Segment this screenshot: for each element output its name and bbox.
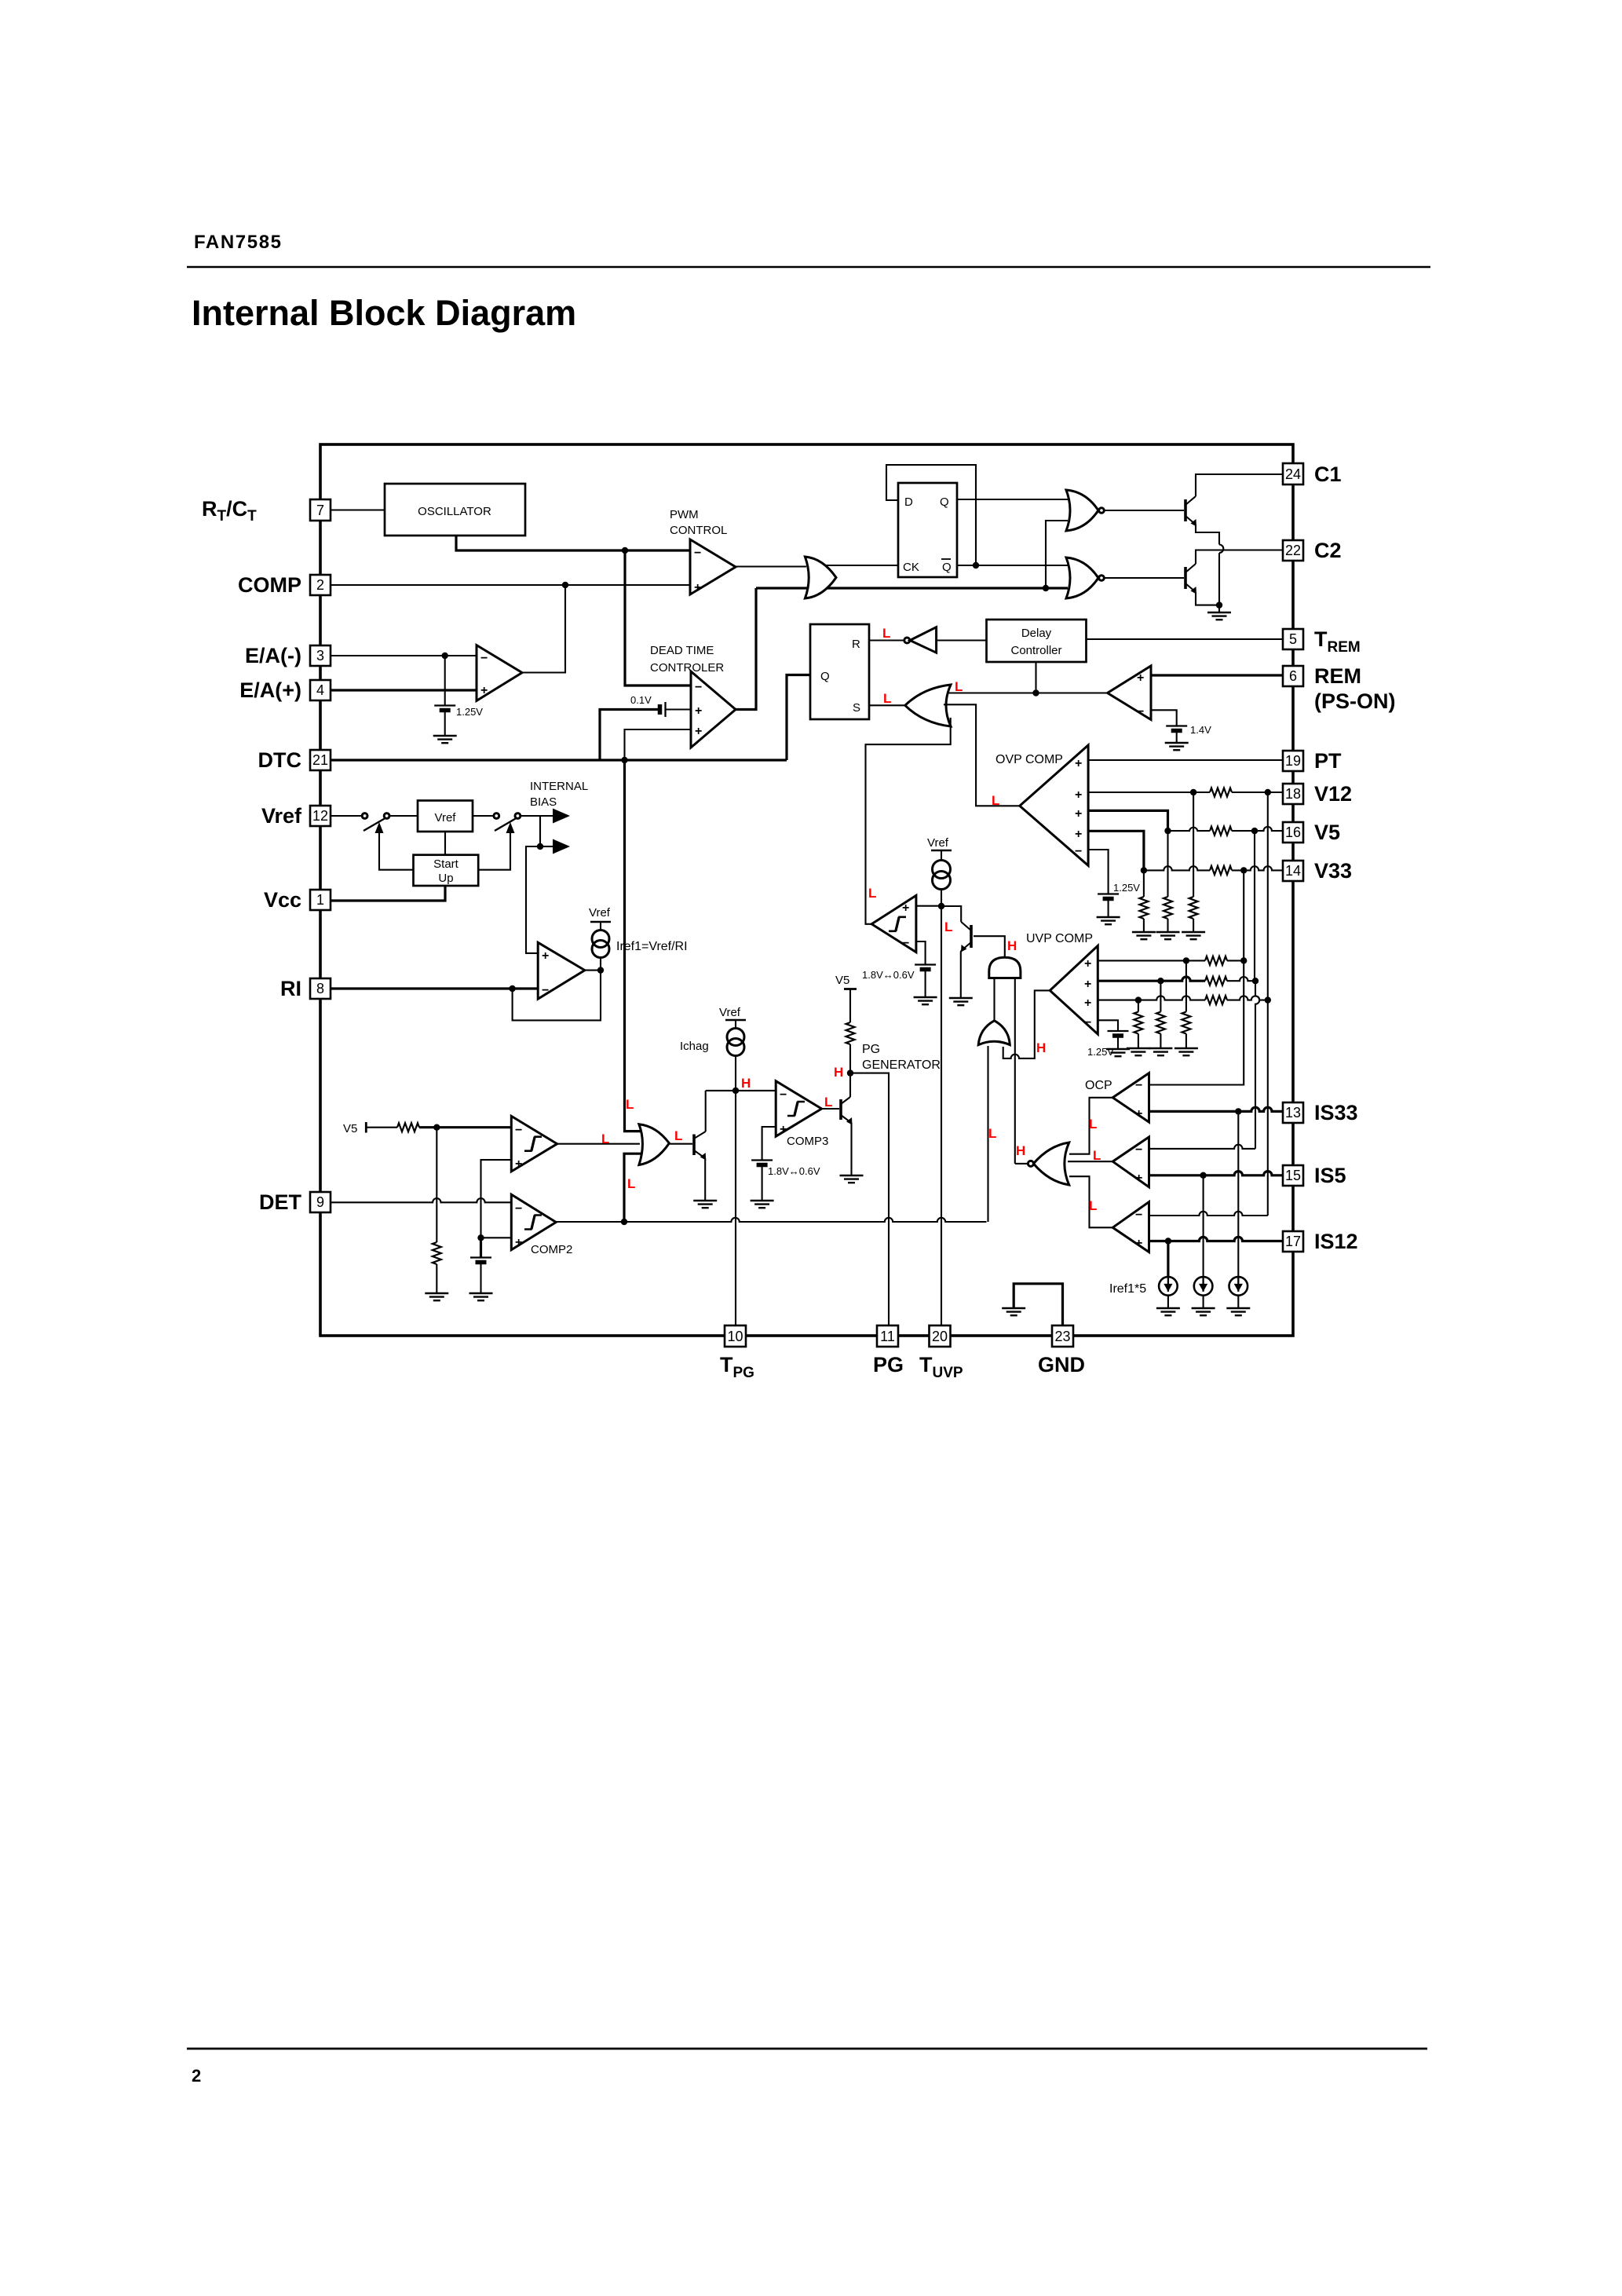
nor-gate NOR1 (C1 driver) bbox=[1066, 490, 1098, 531]
svg-text:+: + bbox=[1135, 1107, 1142, 1121]
box Start Up bbox=[414, 855, 479, 886]
node IS5 sense bbox=[1200, 1172, 1206, 1179]
pin 16 bbox=[1283, 822, 1303, 843]
node IS33 sense bbox=[1235, 1108, 1241, 1114]
svg-text:Q: Q bbox=[940, 495, 949, 509]
wire V5 bus down to OCP2 minus bbox=[1254, 831, 1255, 981]
op-amp OVP comparator (points left) bbox=[1020, 745, 1088, 865]
node UVP in3 right bbox=[1265, 996, 1271, 1003]
wire amp output to source node bbox=[585, 970, 601, 971]
wire COMP2 plus node bbox=[481, 1237, 512, 1238]
svg-text:Vref: Vref bbox=[589, 906, 611, 919]
wire V12 sense line bbox=[1088, 792, 1210, 793]
wire OCP3 output to NOR input3 bbox=[1069, 1176, 1112, 1227]
svg-text:Vref: Vref bbox=[719, 1006, 741, 1019]
node bias branch bbox=[537, 843, 543, 850]
wire NOR output up to AND input2 bbox=[1014, 978, 1016, 1164]
svg-text:L: L bbox=[627, 1176, 635, 1191]
wire collector riser to Ichag line bbox=[705, 1091, 707, 1132]
svg-text:−: − bbox=[515, 1124, 522, 1137]
pin 8 bbox=[310, 978, 331, 999]
svg-text:L: L bbox=[1089, 1117, 1097, 1132]
svg-text:21: 21 bbox=[312, 752, 328, 768]
resistor (PG pullup) bbox=[846, 1022, 855, 1044]
pin 1 bbox=[310, 890, 331, 910]
svg-text:−: − bbox=[780, 1088, 787, 1102]
or-gate U1 (PWM/DTC combine) bbox=[805, 557, 836, 598]
wire V33 sense line with hops bbox=[1144, 866, 1210, 870]
wire OR output to transistor base bbox=[669, 1143, 692, 1145]
arrow internal bias 2 bbox=[540, 846, 553, 847]
node V33 mid bbox=[1240, 867, 1247, 873]
wire pin3 to E/A minus bbox=[331, 655, 477, 656]
svg-text:Vref: Vref bbox=[927, 836, 949, 850]
svg-text:CK: CK bbox=[903, 561, 919, 574]
box Vref regulator bbox=[418, 801, 473, 832]
battery (COMP2 ref) bbox=[480, 1238, 482, 1257]
node PG collector bbox=[847, 1069, 853, 1076]
svg-text:+: + bbox=[695, 704, 702, 718]
svg-text:−: − bbox=[695, 681, 702, 694]
node V5 right bbox=[1251, 828, 1258, 834]
transistor Q2 bbox=[1184, 567, 1187, 589]
svg-text:C1: C1 bbox=[1314, 462, 1342, 486]
current source timer Vref bbox=[931, 850, 952, 851]
svg-text:Start: Start bbox=[433, 857, 459, 871]
resistor (DET divider) bbox=[433, 1242, 441, 1264]
box delay controller bbox=[987, 620, 1087, 662]
or-gate DET combine bbox=[639, 1124, 670, 1165]
node Iref output bbox=[597, 967, 604, 973]
wire Q2 emitter to ground junction bbox=[1196, 592, 1219, 605]
pin 23 bbox=[1052, 1325, 1073, 1347]
arrow internal bias 1 bbox=[553, 809, 570, 824]
op-amp PWM comparator bbox=[690, 539, 736, 594]
pin 5 bbox=[1283, 629, 1303, 649]
svg-text:−: − bbox=[1135, 1143, 1142, 1157]
svg-text:7: 7 bbox=[316, 503, 324, 518]
svg-text:H: H bbox=[834, 1065, 843, 1080]
wire Vref box to switch2 bbox=[473, 815, 494, 817]
svg-text:+: + bbox=[902, 901, 909, 915]
svg-text:Vref: Vref bbox=[261, 804, 302, 828]
svg-text:14: 14 bbox=[1285, 863, 1301, 879]
pin 11 bbox=[877, 1325, 898, 1347]
op-amp UVP comparator (points left) bbox=[1050, 945, 1098, 1034]
node pin3 junction bbox=[442, 653, 448, 659]
svg-text:23: 23 bbox=[1054, 1329, 1070, 1344]
svg-text:IS33: IS33 bbox=[1314, 1101, 1358, 1124]
wire OCP1 plus to pin13 with hops bbox=[1149, 1107, 1284, 1111]
svg-text:Vref: Vref bbox=[435, 811, 457, 824]
svg-text:−: − bbox=[694, 547, 701, 560]
wire UVP minus to 1.25V bbox=[1098, 1020, 1118, 1031]
svg-text:+: + bbox=[1084, 978, 1091, 991]
svg-text:−: − bbox=[1137, 705, 1144, 718]
wire timer minus to battery bbox=[916, 941, 926, 964]
svg-text:Up: Up bbox=[438, 872, 453, 885]
svg-text:+: + bbox=[515, 1236, 522, 1249]
wire UVP divider leg 2 bbox=[1160, 981, 1161, 1011]
wire OVP input4 to V33 line bbox=[1088, 831, 1144, 870]
wire COMP2 output long line with hops bbox=[556, 1218, 986, 1222]
svg-text:CONTROL: CONTROL bbox=[670, 524, 727, 537]
svg-text:+: + bbox=[1075, 757, 1082, 770]
svg-text:15: 15 bbox=[1285, 1168, 1301, 1183]
node COMP2 output bbox=[621, 1219, 627, 1225]
svg-text:C2: C2 bbox=[1314, 539, 1342, 562]
pin 4 bbox=[310, 680, 331, 700]
node timer node bbox=[938, 903, 944, 909]
ground (GND pin) bbox=[1002, 1308, 1025, 1315]
svg-text:+: + bbox=[694, 581, 701, 594]
op-amp dead time controller bbox=[691, 671, 736, 748]
svg-text:Ichag: Ichag bbox=[680, 1040, 709, 1053]
pin 10 bbox=[725, 1325, 746, 1347]
wire emitter to ground bbox=[704, 1158, 706, 1201]
wire battery to ground bbox=[444, 711, 446, 736]
wire PG emitter to ground bbox=[850, 1123, 852, 1175]
switch S2 control arrow bbox=[506, 822, 515, 833]
wire DTC corner up to 0.1V battery bbox=[600, 710, 658, 761]
wire latch S from OR gate bbox=[869, 704, 905, 706]
svg-text:+: + bbox=[1137, 671, 1144, 685]
switch S1 control arrow bbox=[375, 822, 384, 833]
svg-text:1.8V↔0.6V: 1.8V↔0.6V bbox=[768, 1165, 820, 1177]
wire COMP3 output to PG transistor base bbox=[822, 1108, 840, 1110]
svg-text:+: + bbox=[695, 725, 702, 738]
pin 19 bbox=[1283, 751, 1303, 771]
pin 2 bbox=[310, 575, 331, 595]
wire delay controller input from REM net bbox=[1035, 662, 1036, 693]
wire NOR2 to Q2 base bbox=[1104, 577, 1184, 579]
wire Vref box to StartUp bbox=[444, 832, 446, 855]
node oscillator output junction bbox=[622, 547, 628, 554]
wire bias branch down bbox=[539, 816, 541, 846]
wire latch Q to DTC net bbox=[787, 675, 810, 761]
ground (1.4V) bbox=[1165, 743, 1189, 750]
current source Iref1 (IS33) bbox=[1229, 1277, 1248, 1296]
svg-text:V5: V5 bbox=[835, 974, 849, 987]
wire OVP minus to 1.25V bbox=[1088, 850, 1109, 894]
pin 18 bbox=[1283, 784, 1303, 804]
wire COMP2a output to OR bbox=[557, 1143, 640, 1145]
pin 6 bbox=[1283, 666, 1303, 686]
op-amp OCP comparator IS5 (points left) bbox=[1112, 1137, 1149, 1187]
wire Q1 collector to pin24 bbox=[1196, 474, 1283, 496]
svg-text:1.8V↔0.6V: 1.8V↔0.6V bbox=[862, 969, 915, 981]
current source Iref1 (IS5) bbox=[1194, 1277, 1213, 1296]
svg-text:UVP COMP: UVP COMP bbox=[1026, 932, 1093, 945]
wire flip-flop Qbar to NOR2 bbox=[957, 565, 1068, 566]
op-amp timer comparator (points left) bbox=[871, 895, 916, 952]
main IC boundary box bbox=[320, 444, 1293, 1336]
battery 1.4V bbox=[1166, 726, 1187, 731]
node COMP2 plus bbox=[477, 1234, 484, 1241]
wire V5 divider down to resistor bbox=[436, 1128, 437, 1242]
ground (COMP3 ref) bbox=[751, 1201, 774, 1208]
battery 1.8V-0.6V (timer) bbox=[915, 965, 936, 970]
svg-text:PG: PG bbox=[862, 1043, 880, 1056]
svg-text:L: L bbox=[988, 1126, 996, 1141]
svg-text:−: − bbox=[1075, 845, 1082, 858]
current source Iref1 (IS12) bbox=[1159, 1277, 1178, 1296]
wire OR output up to AND input bbox=[993, 978, 995, 1021]
svg-text:−: − bbox=[480, 652, 488, 665]
ground (DET tr) bbox=[693, 1201, 717, 1208]
wire COMP2a plus leg bbox=[481, 1160, 512, 1238]
wire inverter to delay controller bbox=[937, 639, 987, 641]
wire UVP input1 (V33) bbox=[1098, 960, 1205, 961]
wire Q1 emitter chain with hop over C2 line bbox=[1196, 525, 1219, 545]
svg-text:+: + bbox=[780, 1123, 787, 1136]
svg-text:L: L bbox=[601, 1132, 609, 1146]
wire junction up to DTC second plus input bbox=[625, 729, 692, 760]
wire UVP input2 (V5) with hops bbox=[1098, 977, 1205, 981]
node UVP in2 right bbox=[1252, 978, 1259, 984]
svg-text:L: L bbox=[674, 1128, 682, 1143]
svg-text:COMP2: COMP2 bbox=[531, 1243, 572, 1256]
svg-text:3: 3 bbox=[316, 648, 324, 664]
node delay branch bbox=[1032, 689, 1039, 696]
battery 1.25V (OVP) bbox=[1098, 894, 1119, 899]
svg-text:Internal Block Diagram: Internal Block Diagram bbox=[192, 293, 576, 333]
svg-text:OCP: OCP bbox=[1085, 1079, 1112, 1092]
svg-text:+: + bbox=[1135, 1172, 1142, 1185]
node UVP in1 left bbox=[1183, 957, 1189, 963]
wire timer node down to pin20 TUVP bbox=[941, 906, 942, 1325]
wire PG collector riser bbox=[849, 1073, 851, 1097]
svg-text:(PS-ON): (PS-ON) bbox=[1314, 689, 1396, 713]
wire AND output to discharge transistor base bbox=[974, 936, 1005, 957]
svg-text:L: L bbox=[824, 1095, 832, 1110]
transistor Q1 bbox=[1184, 499, 1187, 521]
svg-text:13: 13 bbox=[1285, 1105, 1301, 1121]
svg-text:GENERATOR: GENERATOR bbox=[862, 1058, 941, 1072]
svg-text:19: 19 bbox=[1285, 753, 1301, 769]
oscillator box bbox=[385, 484, 525, 536]
svg-text:Vcc: Vcc bbox=[264, 888, 301, 912]
ground (timer ref) bbox=[914, 997, 937, 1004]
svg-text:DEAD TIME: DEAD TIME bbox=[650, 644, 714, 657]
svg-text:L: L bbox=[1089, 1198, 1097, 1213]
svg-text:IS12: IS12 bbox=[1314, 1230, 1358, 1253]
pin 20 bbox=[930, 1325, 951, 1347]
svg-text:−: − bbox=[1084, 1016, 1091, 1029]
nor-gate OCP combine (points left) bbox=[1033, 1143, 1069, 1185]
svg-text:2: 2 bbox=[316, 577, 324, 593]
wire IS5 sense down to current source bbox=[1203, 1175, 1204, 1277]
svg-text:−: − bbox=[1135, 1208, 1142, 1222]
svg-text:16: 16 bbox=[1285, 824, 1301, 840]
svg-text:+: + bbox=[1075, 807, 1082, 821]
pin 24 bbox=[1283, 463, 1303, 484]
svg-text:V33: V33 bbox=[1314, 859, 1352, 883]
svg-text:10: 10 bbox=[727, 1329, 743, 1344]
wire V33 divider leg bbox=[1143, 870, 1145, 897]
svg-text:V12: V12 bbox=[1314, 782, 1352, 806]
pin 7 bbox=[310, 499, 331, 521]
wire PWM comparator output to OR gate bbox=[736, 565, 806, 567]
node V12 left bbox=[1190, 789, 1196, 795]
battery 0.1V bbox=[658, 704, 663, 715]
wire Ichag line to COMP3 minus bbox=[706, 1090, 776, 1091]
wire NOR1 to Q1 base bbox=[1104, 510, 1184, 511]
wire COMP3 plus to battery bbox=[762, 1127, 776, 1160]
wire OR gate to flip-flop CK bbox=[824, 565, 898, 566]
svg-text:L: L bbox=[882, 626, 890, 641]
battery 1.25V (E/A ref) bbox=[434, 706, 455, 711]
pin 14 bbox=[1283, 861, 1303, 881]
wire emitter to ground bbox=[961, 950, 962, 998]
svg-text:1.4V: 1.4V bbox=[1190, 724, 1211, 736]
footer rule bbox=[187, 2048, 1427, 2050]
wire V12 bus down to OCP3 minus bbox=[1267, 792, 1269, 1000]
svg-text:FAN7585: FAN7585 bbox=[194, 232, 283, 253]
wire REM comparator output to S OR input bbox=[937, 692, 1108, 693]
svg-text:D: D bbox=[904, 495, 913, 509]
wire resistor to COMP2a minus bbox=[419, 1126, 511, 1128]
svg-text:INTERNAL: INTERNAL bbox=[530, 780, 588, 793]
svg-text:V5: V5 bbox=[1314, 821, 1340, 844]
svg-text:H: H bbox=[1036, 1040, 1046, 1055]
svg-text:1: 1 bbox=[316, 892, 324, 908]
wire UVP divider leg 1 bbox=[1185, 960, 1187, 1011]
and-gate fault combine (points up) bbox=[989, 957, 1021, 978]
switch S1 bbox=[362, 813, 367, 819]
pin 12 bbox=[310, 806, 331, 826]
op-amp OCP comparator IS33 (points left) bbox=[1112, 1073, 1149, 1122]
latch RS box bbox=[810, 624, 869, 719]
wire OCP2 output to NOR input2 bbox=[1068, 1161, 1112, 1162]
pin 17 bbox=[1283, 1231, 1303, 1252]
svg-text:COMP: COMP bbox=[238, 573, 301, 597]
svg-text:Q: Q bbox=[942, 561, 952, 574]
svg-text:−: − bbox=[1135, 1079, 1142, 1092]
ground (discharge) bbox=[949, 998, 973, 1005]
wire UVP input3 (V12) with hops bbox=[1098, 996, 1205, 1000]
wire OCP3 minus from V12 bus with hops bbox=[1149, 1212, 1268, 1216]
pin 13 bbox=[1283, 1102, 1303, 1123]
svg-text:Iref1*5: Iref1*5 bbox=[1109, 1282, 1146, 1296]
svg-text:+: + bbox=[515, 1157, 522, 1171]
wire Q2 collector to pin22 C2 bbox=[1196, 550, 1283, 565]
op-amp COMP2a bbox=[511, 1116, 557, 1172]
svg-text:Delay: Delay bbox=[1021, 627, 1052, 640]
wire GND pin hook bbox=[1014, 1284, 1062, 1325]
wire OCP1 output to NOR input1 bbox=[1069, 1098, 1112, 1154]
pin 22 bbox=[1283, 540, 1303, 561]
wire UVP output elbow to OR gate bbox=[1003, 990, 1050, 1058]
svg-text:OVP COMP: OVP COMP bbox=[995, 753, 1063, 766]
svg-text:+: + bbox=[1075, 828, 1082, 841]
svg-text:Iref1=Vref/RI: Iref1=Vref/RI bbox=[616, 940, 688, 953]
svg-text:22: 22 bbox=[1285, 543, 1301, 558]
svg-text:OSCILLATOR: OSCILLATOR bbox=[418, 505, 491, 518]
wire junction to 1.25V battery bbox=[444, 656, 446, 705]
node UVP in3 left bbox=[1135, 996, 1142, 1003]
wire pin2 COMP to PWM plus input bbox=[331, 584, 690, 586]
node IS12 sense bbox=[1165, 1238, 1171, 1244]
svg-text:−: − bbox=[542, 984, 549, 997]
svg-text:PT: PT bbox=[1314, 749, 1342, 773]
svg-text:1.25V: 1.25V bbox=[1087, 1046, 1114, 1058]
svg-text:L: L bbox=[992, 793, 999, 808]
svg-text:20: 20 bbox=[932, 1329, 948, 1344]
svg-text:E/A(-): E/A(-) bbox=[245, 644, 301, 667]
wire PG collector to pin11 riser bbox=[850, 1073, 889, 1325]
wire NOR output to riser bbox=[1015, 1163, 1028, 1164]
svg-text:+: + bbox=[542, 949, 549, 963]
wire oscillator output bbox=[456, 536, 690, 550]
wire V33 bus down to OCP1 minus bbox=[1149, 870, 1244, 1084]
wire branch up to NOR1 input bbox=[1046, 521, 1068, 588]
wire dead-time OR line to NOR gates bbox=[756, 587, 1068, 589]
resistor (V12) bbox=[1210, 788, 1232, 797]
svg-text:RI: RI bbox=[280, 977, 301, 1000]
ground (UVP ref) bbox=[1106, 1049, 1130, 1056]
wire dead-time controller net from pin21 bbox=[331, 759, 787, 761]
svg-text:+: + bbox=[1084, 957, 1091, 971]
node V5 left bbox=[1164, 828, 1171, 834]
wire feedback loop bbox=[513, 971, 601, 1021]
op-amp COMP3 bbox=[776, 1081, 821, 1137]
node UVP in2 left bbox=[1157, 978, 1164, 984]
wire pin19 PT to OVP input1 bbox=[1088, 759, 1283, 761]
wire REM minus to 1.4V battery bbox=[1151, 710, 1177, 726]
wire IS33 sense down to current source bbox=[1237, 1111, 1239, 1277]
svg-text:17: 17 bbox=[1285, 1234, 1301, 1249]
svg-text:H: H bbox=[1016, 1143, 1025, 1158]
transistor DET clamp bbox=[692, 1135, 696, 1156]
pin 9 bbox=[310, 1192, 331, 1212]
svg-text:12: 12 bbox=[312, 808, 328, 824]
flip-flop D box bbox=[898, 483, 957, 577]
wire V12 divider leg bbox=[1193, 792, 1194, 897]
wire pin12 to switch1 bbox=[331, 815, 363, 817]
node RI minus bbox=[509, 985, 515, 992]
op-amp REM comparator (points left) bbox=[1108, 666, 1151, 720]
wire junction down to dead-time minus input bbox=[625, 550, 691, 686]
wire V5 pullup stub bbox=[844, 988, 857, 990]
wire bias node down to RI amp plus bbox=[526, 846, 540, 953]
svg-text:PG: PG bbox=[873, 1353, 904, 1377]
svg-text:8: 8 bbox=[316, 981, 324, 996]
svg-text:18: 18 bbox=[1285, 786, 1301, 802]
svg-text:DET: DET bbox=[259, 1190, 302, 1214]
svg-text:L: L bbox=[955, 679, 963, 694]
node Qbar junction bbox=[973, 562, 979, 569]
svg-text:L: L bbox=[883, 691, 891, 706]
node NOR branch junction bbox=[1043, 585, 1049, 591]
svg-text:E/A(+): E/A(+) bbox=[239, 678, 301, 702]
transistor PG bbox=[839, 1099, 842, 1120]
svg-text:L: L bbox=[868, 886, 876, 901]
svg-text:S: S bbox=[853, 701, 860, 715]
svg-text:1.25V: 1.25V bbox=[456, 706, 483, 718]
svg-text:9: 9 bbox=[316, 1194, 324, 1210]
svg-text:−: − bbox=[515, 1202, 522, 1216]
svg-text:Q: Q bbox=[820, 670, 830, 683]
svg-text:CONTROLER: CONTROLER bbox=[650, 661, 724, 675]
wire S OR lower input from timer comparator bbox=[866, 718, 951, 924]
op-amp COMP2 bbox=[511, 1194, 556, 1250]
node emitter/ground junction bbox=[1216, 601, 1222, 608]
svg-text:+: + bbox=[1075, 788, 1082, 802]
wire E/A output up to COMP node bbox=[522, 585, 565, 673]
ground (DET divider) bbox=[425, 1293, 448, 1300]
svg-text:BIAS: BIAS bbox=[530, 795, 557, 809]
